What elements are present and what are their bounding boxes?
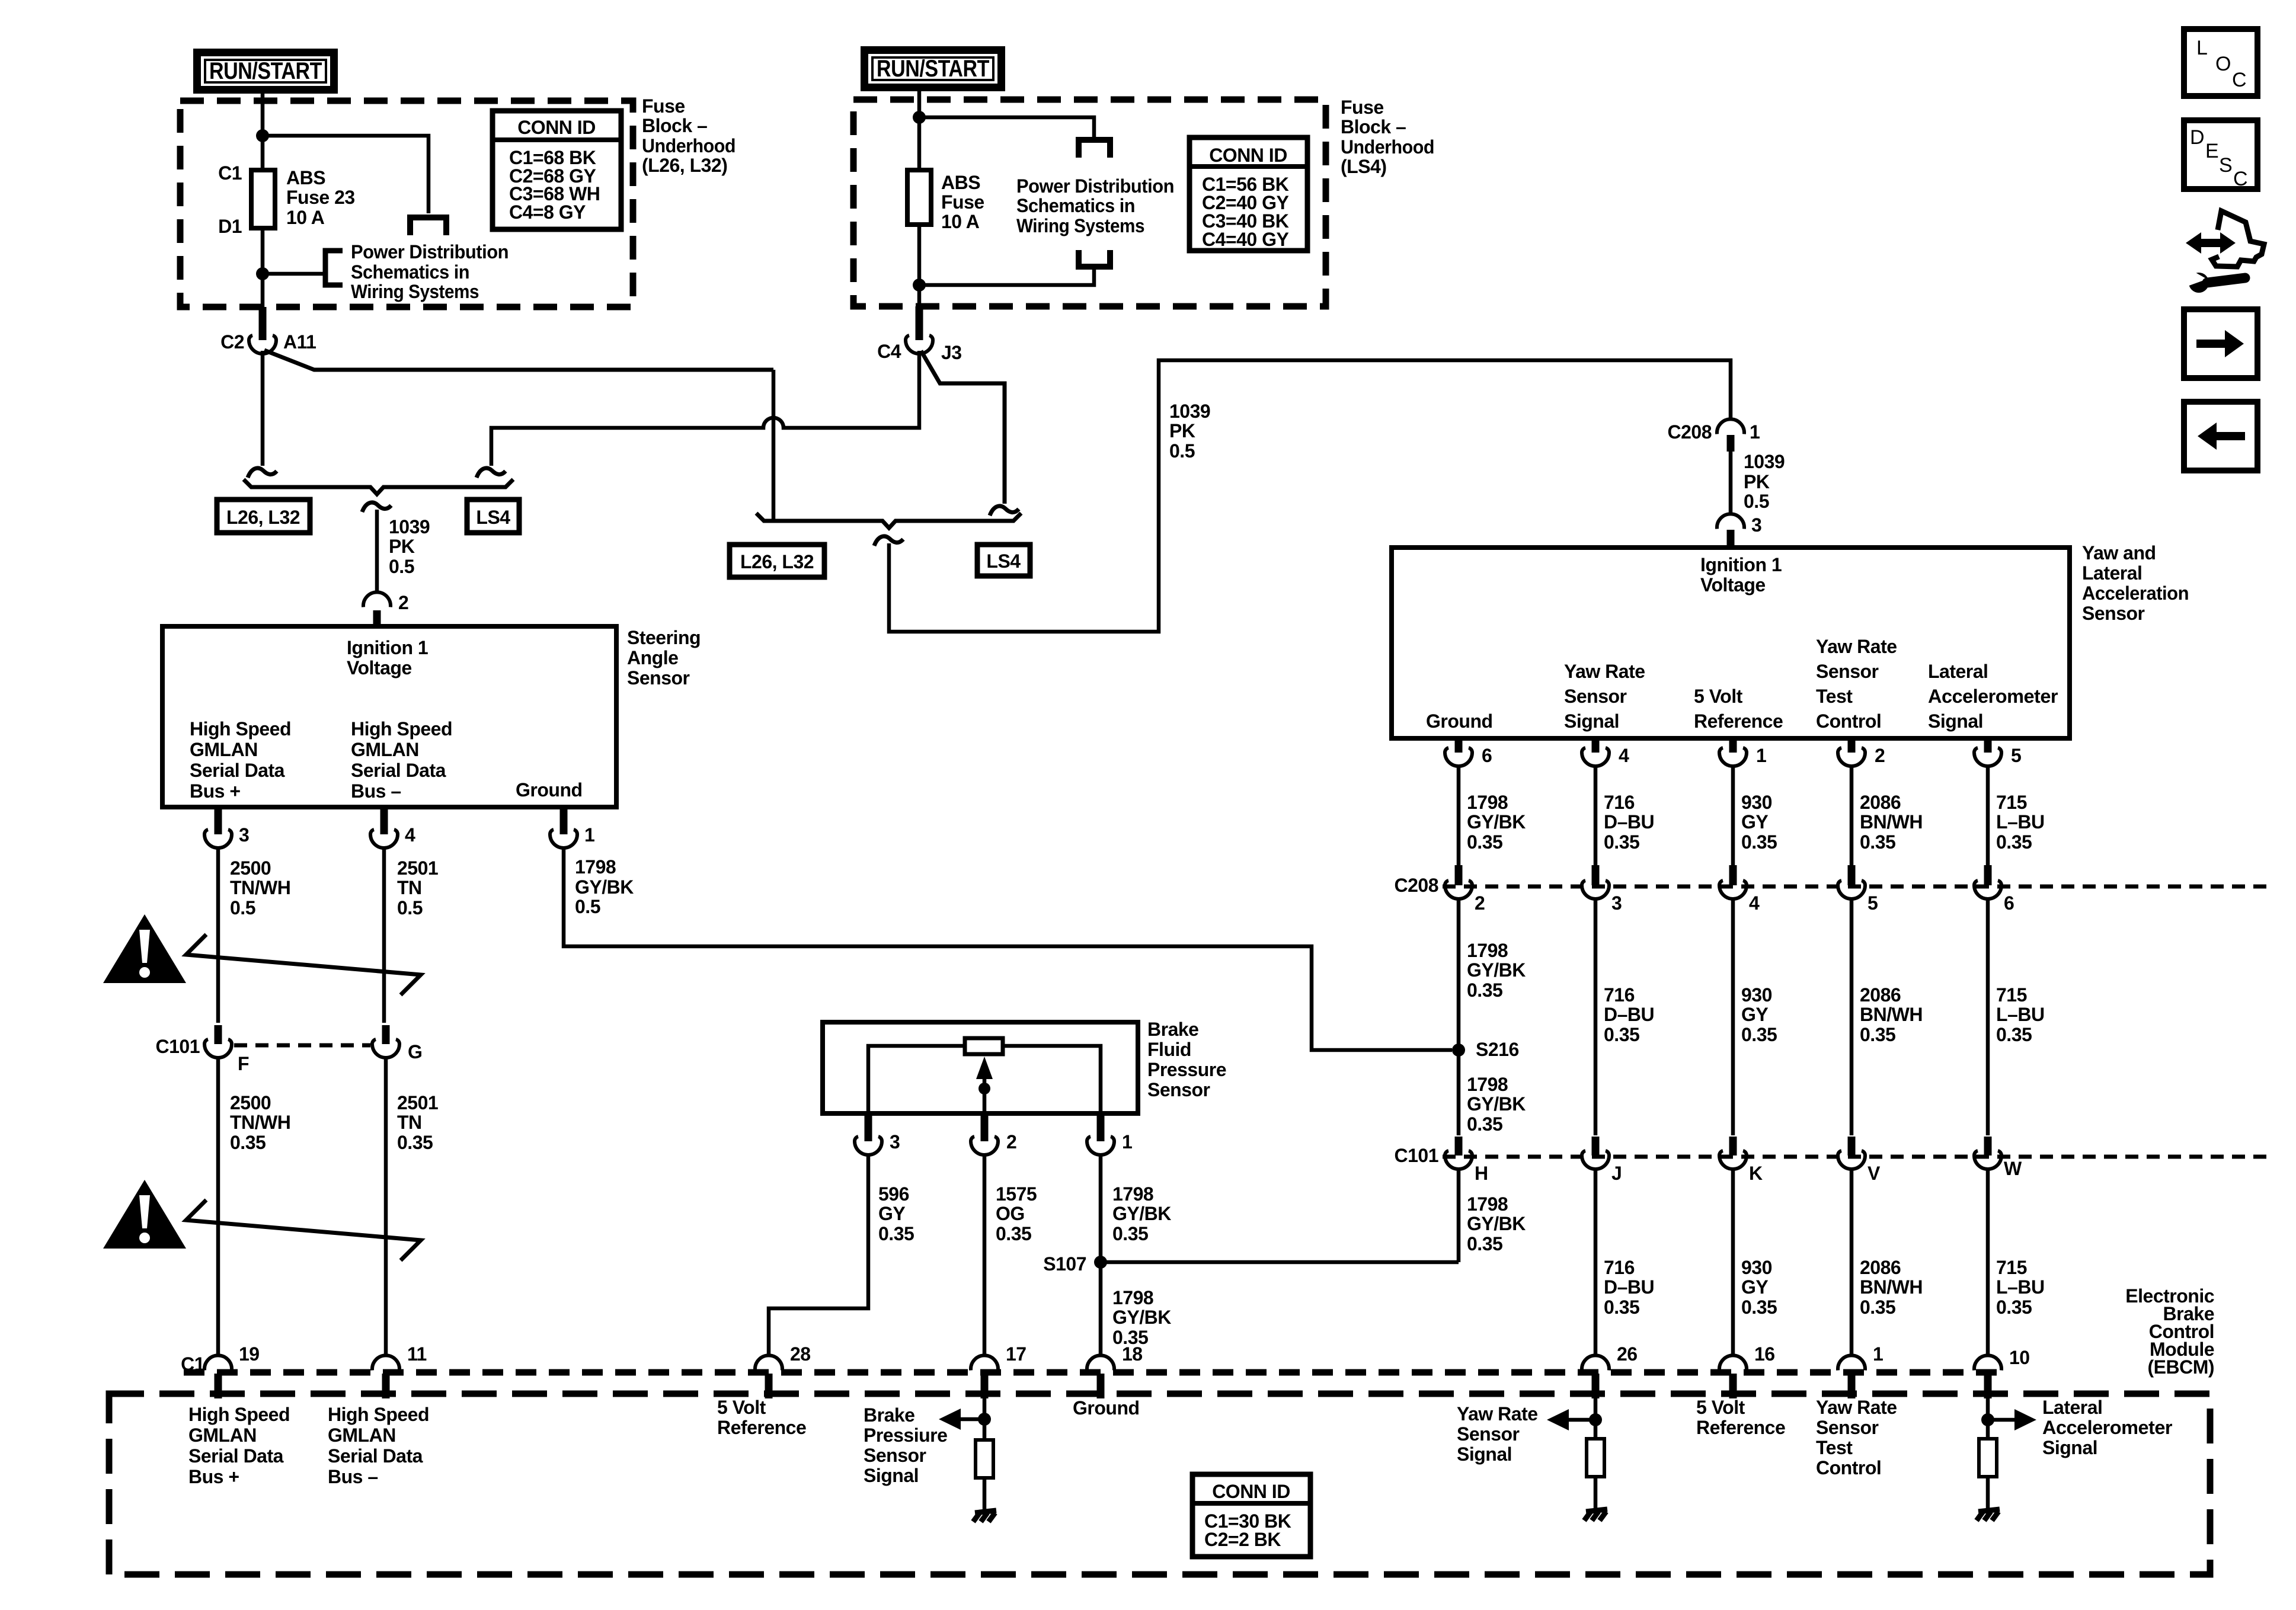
svg-text:1798: 1798 xyxy=(1467,792,1508,813)
svg-text:D–BU: D–BU xyxy=(1604,1004,1654,1025)
svg-text:BN/WH: BN/WH xyxy=(1860,1276,1923,1298)
svg-text:0.35: 0.35 xyxy=(1741,1297,1777,1318)
wire S107 right to C101 H column xyxy=(1101,1260,1459,1265)
svg-text:Underhood: Underhood xyxy=(642,135,736,156)
CONN ID table (middle) xyxy=(1189,137,1307,251)
svg-text:5 Volt: 5 Volt xyxy=(717,1397,766,1418)
svg-text:0.35: 0.35 xyxy=(1860,1297,1895,1318)
svg-text:5: 5 xyxy=(2011,745,2021,766)
svg-text:2501: 2501 xyxy=(397,857,438,879)
svg-text:Test: Test xyxy=(1816,686,1853,707)
svg-text:0.35: 0.35 xyxy=(1604,1024,1639,1045)
svg-text:1: 1 xyxy=(1122,1131,1132,1153)
svg-text:0.35: 0.35 xyxy=(1996,831,2032,853)
fuse ABS 10A xyxy=(907,170,931,225)
EBCM pin 1 xyxy=(1838,1355,1865,1370)
svg-text:715: 715 xyxy=(1996,1257,2027,1278)
wire 1798 GY/BK 0.35 (S216 to C101 H) xyxy=(1457,1050,1461,1135)
hook left breakout left xyxy=(248,468,277,478)
svg-text:0.35: 0.35 xyxy=(1860,831,1895,853)
half-connector bracket xyxy=(1079,140,1110,158)
svg-text:0.5: 0.5 xyxy=(397,897,423,918)
svg-text:Underhood: Underhood xyxy=(1341,136,1434,158)
svg-text:C: C xyxy=(2232,69,2246,91)
svg-text:High Speed: High Speed xyxy=(188,1404,290,1425)
svg-text:0.35: 0.35 xyxy=(1741,1024,1777,1045)
svg-text:C2=2 BK: C2=2 BK xyxy=(1204,1529,1281,1550)
svg-text:LS4: LS4 xyxy=(476,507,510,528)
CONN ID table (left) xyxy=(493,111,621,229)
EBCM dashed box xyxy=(109,1394,2210,1574)
svg-text:0.35: 0.35 xyxy=(1741,831,1777,853)
junction dot xyxy=(256,129,269,142)
svg-text:2086: 2086 xyxy=(1860,984,1901,1006)
svg-text:Accelerometer: Accelerometer xyxy=(1928,686,2058,707)
svg-text:O: O xyxy=(2215,53,2231,75)
svg-text:GY/BK: GY/BK xyxy=(1112,1203,1171,1224)
svg-text:Signal: Signal xyxy=(1564,710,1619,732)
svg-text:0.5: 0.5 xyxy=(1169,440,1195,462)
wire 1575 OG (pin 2 to EBCM 17) xyxy=(983,1155,987,1356)
svg-text:1039: 1039 xyxy=(1169,401,1210,422)
svg-text:RUN/START: RUN/START xyxy=(877,56,989,82)
wire to elsewhere bracket (top) xyxy=(263,136,428,213)
wire 2501 TN 0.35 (C101 G to EBCM 11) xyxy=(384,1058,388,1356)
node LS4 xyxy=(467,500,519,533)
svg-text:0.35: 0.35 xyxy=(1467,831,1502,853)
svg-text:GY/BK: GY/BK xyxy=(575,876,634,898)
pin 2 xyxy=(981,1113,989,1141)
yaw pin 1 xyxy=(1729,738,1737,753)
svg-text:GY: GY xyxy=(1741,1276,1768,1298)
svg-text:TN: TN xyxy=(397,877,422,898)
svg-text:K: K xyxy=(1749,1163,1763,1184)
wire 1798 GY/BK 0.35 (C101 H to S107 run) xyxy=(1457,1169,1461,1262)
dashed connector line C101 left xyxy=(234,1044,370,1048)
svg-text:17: 17 xyxy=(1006,1343,1027,1365)
connector C208 pin 1 xyxy=(1717,419,1744,434)
wire 2086 BN/WH 0.35 (C101 V to EBCM 1) xyxy=(1850,1169,1854,1356)
svg-text:3: 3 xyxy=(1611,892,1622,914)
svg-text:Power Distribution: Power Distribution xyxy=(1016,175,1174,197)
svg-text:PK: PK xyxy=(1744,471,1770,492)
svg-text:0.5: 0.5 xyxy=(389,556,414,577)
svg-text:4: 4 xyxy=(1619,745,1629,766)
svg-text:C2: C2 xyxy=(220,331,244,353)
node RUN/START (left) xyxy=(193,49,338,94)
svg-text:1: 1 xyxy=(1750,421,1760,443)
svg-text:J3: J3 xyxy=(941,342,962,363)
svg-text:BN/WH: BN/WH xyxy=(1860,1004,1923,1025)
connector row C208 dashed line xyxy=(1443,885,2273,889)
EBCM pin 16 xyxy=(1719,1355,1747,1370)
junction dot xyxy=(256,267,269,280)
hook left breakout right xyxy=(477,468,506,478)
svg-text:W: W xyxy=(2004,1158,2022,1179)
svg-text:Schematics in: Schematics in xyxy=(1016,195,1135,216)
svg-text:5: 5 xyxy=(1868,892,1878,914)
svg-text:18: 18 xyxy=(1122,1343,1143,1365)
svg-text:Sensor: Sensor xyxy=(2082,603,2145,624)
wire to elsewhere bracket (bottom) xyxy=(919,268,1094,285)
hook middle breakout right xyxy=(990,506,1019,516)
EBCM pin row dashed line xyxy=(184,1369,2009,1376)
svg-text:2500: 2500 xyxy=(230,1092,271,1113)
svg-text:11: 11 xyxy=(407,1343,427,1365)
svg-text:Lateral: Lateral xyxy=(2082,562,2142,584)
svg-text:F: F xyxy=(238,1053,249,1074)
svg-text:2: 2 xyxy=(1006,1131,1016,1153)
svg-text:GY/BK: GY/BK xyxy=(1467,811,1526,833)
svg-text:4: 4 xyxy=(1749,892,1760,914)
svg-text:930: 930 xyxy=(1741,1257,1772,1278)
svg-text:5 Volt: 5 Volt xyxy=(1694,686,1743,707)
svg-text:GMLAN: GMLAN xyxy=(190,739,258,760)
svg-text:Steering: Steering xyxy=(627,627,701,648)
forward arrow icon xyxy=(2184,309,2257,378)
wire 2086 BN/WH 0.35 (C208 5 to C101 V) xyxy=(1850,899,1854,1135)
wire 715 L-BU 0.35 (yaw 5 to C208 6) xyxy=(1986,766,1990,865)
svg-text:1575: 1575 xyxy=(996,1183,1037,1205)
svg-text:RUN/START: RUN/START xyxy=(209,58,322,84)
svg-text:(LS4): (LS4) xyxy=(1341,156,1387,177)
svg-text:4: 4 xyxy=(405,824,415,846)
svg-text:C101: C101 xyxy=(1395,1145,1439,1166)
svg-text:10 A: 10 A xyxy=(941,211,980,232)
svg-text:L–BU: L–BU xyxy=(1996,1004,2045,1025)
pin 4 xyxy=(380,807,388,834)
svg-text:2: 2 xyxy=(398,592,408,613)
EBCM pin 28 xyxy=(755,1355,782,1370)
svg-text:2501: 2501 xyxy=(397,1092,438,1113)
svg-text:L–BU: L–BU xyxy=(1996,1276,2045,1298)
wire C2 diagonal to middle breakout feed xyxy=(264,350,773,370)
svg-text:ABS: ABS xyxy=(286,167,325,188)
back arrow icon xyxy=(2184,402,2257,470)
svg-text:Sensor: Sensor xyxy=(864,1445,926,1466)
pin 1 xyxy=(560,807,568,834)
svg-text:1798: 1798 xyxy=(1467,1074,1508,1095)
svg-text:TN: TN xyxy=(397,1112,422,1133)
svg-text:Ground: Ground xyxy=(1073,1397,1140,1419)
wire 716 D-BU 0.35 (yaw 4 to C208 3) xyxy=(1594,766,1598,865)
wire 930 GY 0.35 (C208 4 to C101 K) xyxy=(1731,899,1735,1135)
pin 10 internals xyxy=(1986,1395,1990,1439)
C208 pin 5 xyxy=(1848,865,1856,885)
svg-text:1039: 1039 xyxy=(389,516,430,537)
svg-text:L–BU: L–BU xyxy=(1996,811,2045,833)
svg-text:BN/WH: BN/WH xyxy=(1860,811,1923,833)
svg-text:Yaw Rate: Yaw Rate xyxy=(1564,661,1645,682)
C101 pin W xyxy=(1984,1137,1992,1156)
warning triangle 1 xyxy=(103,914,186,983)
svg-text:0.5: 0.5 xyxy=(1744,491,1769,512)
svg-text:Serial Data: Serial Data xyxy=(188,1445,284,1467)
svg-text:C4: C4 xyxy=(877,341,901,362)
junction dot xyxy=(913,111,926,124)
wire 1798 GY/BK 0.5 ground run to S216 xyxy=(564,848,1452,1050)
svg-text:L26, L32: L26, L32 xyxy=(226,507,300,528)
fuse F23 xyxy=(251,170,275,228)
svg-text:Sensor: Sensor xyxy=(1816,661,1879,682)
fuse block dashed box (left) xyxy=(180,101,633,307)
wire 596 GY (pin 3 to EBCM 28) xyxy=(769,1155,868,1356)
wire middle brace center down right up to C208 pin 1 xyxy=(889,360,1731,632)
connector C2 A11 xyxy=(259,307,267,340)
internal potentiometer wiring xyxy=(868,1046,1101,1113)
svg-text:0.35: 0.35 xyxy=(1860,1024,1895,1045)
svg-text:3: 3 xyxy=(239,824,249,846)
splice S107 xyxy=(1094,1256,1107,1269)
svg-text:Bus –: Bus – xyxy=(351,780,401,802)
wire 1039 PK 0.5 to yaw pin 3 xyxy=(1729,452,1733,514)
yaw pin 2 xyxy=(1848,738,1856,753)
svg-text:Fuse: Fuse xyxy=(642,95,685,117)
svg-text:G: G xyxy=(408,1041,422,1062)
svg-text:1: 1 xyxy=(1873,1343,1883,1365)
EBCM pin 19 xyxy=(204,1355,232,1370)
wire 2086 BN/WH 0.35 (yaw 2 to C208 5) xyxy=(1850,766,1854,865)
svg-text:D–BU: D–BU xyxy=(1604,811,1654,833)
wire 1798 GY/BK (S107 to EBCM 18) xyxy=(1099,1262,1103,1356)
svg-text:2086: 2086 xyxy=(1860,792,1901,813)
brace middle breakout xyxy=(756,513,1021,528)
svg-text:CONN ID: CONN ID xyxy=(517,117,596,138)
yaw pin 6 xyxy=(1455,738,1463,753)
svg-text:PK: PK xyxy=(1169,420,1195,441)
EBCM pin 17 xyxy=(971,1355,998,1370)
DESC icon xyxy=(2184,120,2257,190)
warning triangle 2 xyxy=(103,1180,186,1249)
bracket [ xyxy=(325,251,343,285)
svg-text:28: 28 xyxy=(790,1343,811,1365)
svg-text:0.5: 0.5 xyxy=(575,896,600,917)
svg-text:0.35: 0.35 xyxy=(1604,1297,1639,1318)
svg-text:Acceleration: Acceleration xyxy=(2082,582,2189,604)
svg-text:Sensor: Sensor xyxy=(1147,1079,1210,1100)
svg-text:Bus +: Bus + xyxy=(188,1466,239,1487)
svg-text:Schematics in: Schematics in xyxy=(351,261,469,283)
wire to power distribution bracket xyxy=(263,272,324,276)
svg-text:0.35: 0.35 xyxy=(878,1223,914,1244)
svg-text:D1: D1 xyxy=(218,216,242,237)
wire 715 L-BU 0.35 (C101 W to EBCM 10) xyxy=(1986,1169,1990,1356)
hook below middle brace center xyxy=(874,536,903,546)
svg-text:6: 6 xyxy=(1482,745,1492,766)
svg-text:Ignition 1: Ignition 1 xyxy=(1700,554,1782,575)
svg-text:2500: 2500 xyxy=(230,857,271,879)
svg-text:Accelerometer: Accelerometer xyxy=(2042,1417,2172,1438)
svg-text:2: 2 xyxy=(1875,745,1885,766)
brace left breakout xyxy=(244,479,513,494)
svg-text:Brake: Brake xyxy=(1147,1019,1198,1040)
C208 pin 6 xyxy=(1984,865,1992,885)
pin 3 xyxy=(865,1113,872,1141)
svg-text:596: 596 xyxy=(878,1183,909,1205)
svg-text:1798: 1798 xyxy=(1112,1183,1153,1205)
svg-text:L: L xyxy=(2196,37,2207,59)
svg-text:TN/WH: TN/WH xyxy=(230,1112,290,1133)
svg-text:GY/BK: GY/BK xyxy=(1467,1093,1526,1115)
svg-text:LS4: LS4 xyxy=(986,550,1021,572)
svg-text:1: 1 xyxy=(1756,745,1766,766)
svg-text:1798: 1798 xyxy=(1467,940,1508,961)
svg-text:Reference: Reference xyxy=(1694,710,1783,732)
connector C101 F xyxy=(215,1025,222,1044)
svg-text:Yaw Rate: Yaw Rate xyxy=(1816,1397,1897,1418)
svg-text:0.35: 0.35 xyxy=(996,1223,1031,1244)
svg-text:Bus –: Bus – xyxy=(328,1466,378,1487)
wire C4 straight down, left along y722 with hop, down to left breakout right end xyxy=(491,351,919,466)
wrench navigation icon xyxy=(2186,211,2264,293)
svg-text:GY/BK: GY/BK xyxy=(1112,1307,1171,1328)
svg-text:C208: C208 xyxy=(1668,421,1712,443)
svg-text:Serial Data: Serial Data xyxy=(328,1445,423,1467)
connector C4 J3 xyxy=(916,306,923,340)
yaw pin 5 xyxy=(1984,738,1992,753)
svg-text:Control: Control xyxy=(1816,710,1881,732)
C208 pin 3 xyxy=(1592,865,1600,885)
svg-text:S216: S216 xyxy=(1476,1039,1519,1060)
connector pin 3 into yaw box xyxy=(1717,514,1744,529)
wire C4 diagonal to middle breakout right end xyxy=(921,351,1005,504)
C101 pin J xyxy=(1592,1137,1600,1156)
svg-text:GY: GY xyxy=(1741,1004,1768,1025)
svg-text:3: 3 xyxy=(890,1131,900,1153)
potentiometer resistor element xyxy=(965,1038,1003,1054)
svg-text:0.35: 0.35 xyxy=(230,1132,266,1153)
splice S216 xyxy=(1452,1044,1465,1057)
C101 pin K xyxy=(1729,1137,1737,1156)
svg-text:1798: 1798 xyxy=(575,856,616,878)
svg-text:H: H xyxy=(1475,1163,1488,1184)
svg-text:Power Distribution: Power Distribution xyxy=(351,241,509,263)
svg-text:PK: PK xyxy=(389,536,415,557)
svg-text:GY/BK: GY/BK xyxy=(1467,959,1526,981)
svg-text:0.5: 0.5 xyxy=(230,897,255,918)
EBCM pin 10 xyxy=(1974,1355,2001,1370)
svg-text:Ground: Ground xyxy=(1426,710,1493,732)
junction dot xyxy=(913,279,926,292)
EBCM pin 18 xyxy=(1087,1355,1114,1370)
C208 pin 2 xyxy=(1455,865,1463,885)
node L26, L32 (middle) xyxy=(730,545,824,577)
yaw pin 4 xyxy=(1592,738,1600,753)
connector pin 2 into steering box xyxy=(363,592,391,607)
svg-text:Sensor: Sensor xyxy=(1564,686,1627,707)
svg-text:Lateral: Lateral xyxy=(1928,661,1988,682)
svg-text:Voltage: Voltage xyxy=(1700,574,1766,596)
C101 pin V xyxy=(1848,1137,1856,1156)
pin 26 internals xyxy=(1594,1395,1598,1439)
svg-text:1: 1 xyxy=(584,824,594,846)
svg-text:1039: 1039 xyxy=(1744,451,1785,472)
wire 1039 PK 0.5 down to steering pin 2 xyxy=(375,510,379,593)
svg-text:715: 715 xyxy=(1996,792,2027,813)
wire 1798 GY/BK 0.35 (C208 2 to S216) xyxy=(1457,899,1461,1050)
svg-text:Pressure: Pressure xyxy=(1147,1059,1226,1080)
svg-text:TN/WH: TN/WH xyxy=(230,877,290,898)
svg-text:0.35: 0.35 xyxy=(1112,1223,1148,1244)
svg-text:0.35: 0.35 xyxy=(397,1132,433,1153)
svg-text:5 Volt: 5 Volt xyxy=(1696,1397,1745,1418)
svg-text:High Speed: High Speed xyxy=(328,1404,429,1425)
wire to elsewhere bracket (top) xyxy=(919,117,1094,139)
svg-text:Ignition 1: Ignition 1 xyxy=(347,637,428,658)
svg-text:Signal: Signal xyxy=(2042,1437,2097,1458)
EBCM pin 26 xyxy=(1582,1355,1609,1370)
wire RUN/START down to C4 xyxy=(917,91,922,308)
svg-text:C1: C1 xyxy=(218,162,242,184)
svg-text:Test: Test xyxy=(1816,1437,1853,1458)
svg-text:GY: GY xyxy=(878,1203,905,1224)
svg-text:GMLAN: GMLAN xyxy=(351,739,419,760)
svg-text:Serial Data: Serial Data xyxy=(190,760,285,781)
svg-text:Fuse: Fuse xyxy=(941,191,984,213)
svg-text:930: 930 xyxy=(1741,792,1772,813)
zigzag note line 1 xyxy=(186,934,421,995)
node L26, L32 xyxy=(217,500,310,533)
svg-text:D–BU: D–BU xyxy=(1604,1276,1654,1298)
wire 2501 TN (pin4 to C101 G) xyxy=(382,848,386,1023)
svg-text:L26, L32: L26, L32 xyxy=(740,551,814,572)
C101 pin H xyxy=(1455,1137,1463,1156)
svg-text:1798: 1798 xyxy=(1467,1193,1508,1215)
svg-text:Block –: Block – xyxy=(1341,116,1406,137)
node LS4 (middle) xyxy=(977,545,1030,576)
svg-text:Signal: Signal xyxy=(1457,1443,1512,1465)
svg-text:ABS: ABS xyxy=(941,172,980,193)
svg-text:GY/BK: GY/BK xyxy=(1467,1213,1526,1234)
svg-text:C4=40 GY: C4=40 GY xyxy=(1202,229,1288,250)
pin 17 internals: wire, dot, arrow, resistor, ground xyxy=(983,1395,987,1441)
svg-text:Fuse 23: Fuse 23 xyxy=(286,187,355,208)
wire RUN/START down to C2 xyxy=(261,94,265,308)
svg-text:S: S xyxy=(2219,154,2232,177)
svg-text:Reference: Reference xyxy=(717,1417,806,1438)
brake fluid pressure sensor box xyxy=(823,1022,1138,1113)
svg-text:715: 715 xyxy=(1996,984,2027,1006)
wire C2 straight down to left breakout xyxy=(261,351,265,466)
svg-text:J: J xyxy=(1611,1163,1622,1184)
svg-text:16: 16 xyxy=(1754,1343,1775,1365)
svg-text:3: 3 xyxy=(1751,514,1761,536)
wire 930 GY 0.35 (yaw 1 to C208 4) xyxy=(1731,766,1735,865)
svg-text:C1: C1 xyxy=(181,1353,204,1375)
connector row C101 dashed line xyxy=(1443,1155,2273,1159)
svg-text:19: 19 xyxy=(239,1343,260,1365)
svg-text:Wiring Systems: Wiring Systems xyxy=(351,281,479,302)
svg-text:High Speed: High Speed xyxy=(351,718,452,740)
fuse block dashed box (middle) xyxy=(853,100,1326,306)
svg-text:Ground: Ground xyxy=(516,779,583,801)
LOC icon xyxy=(2184,29,2257,96)
svg-text:Yaw Rate: Yaw Rate xyxy=(1457,1403,1538,1425)
pin 3 xyxy=(215,807,222,834)
svg-text:1798: 1798 xyxy=(1112,1287,1153,1308)
svg-text:0.35: 0.35 xyxy=(1996,1297,2032,1318)
svg-text:Signal: Signal xyxy=(864,1465,919,1486)
wire 2500 TN/WH (pin3 to C101 F) xyxy=(216,848,220,1023)
wire down from corner to middle brace left end xyxy=(772,370,776,521)
svg-text:Bus +: Bus + xyxy=(190,780,241,802)
svg-text:Angle: Angle xyxy=(627,647,678,668)
svg-text:C: C xyxy=(2233,168,2247,190)
svg-text:Sensor: Sensor xyxy=(627,667,690,689)
svg-text:Lateral: Lateral xyxy=(2042,1397,2102,1418)
svg-text:716: 716 xyxy=(1604,1257,1635,1278)
svg-text:Brake: Brake xyxy=(864,1404,914,1426)
